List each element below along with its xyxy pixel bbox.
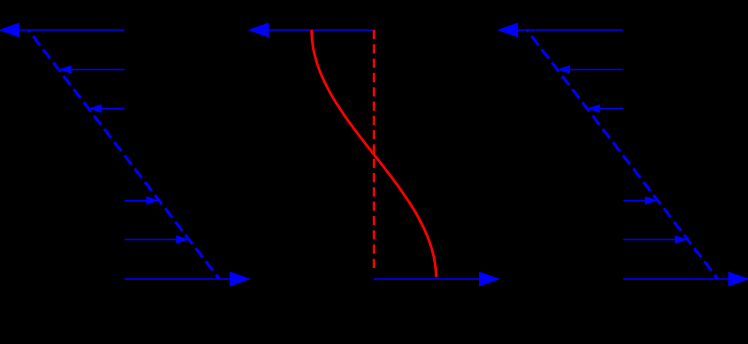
wall arrow top (left panel, pointing left) <box>0 23 125 38</box>
velocity arrow at y=108 (right panel, pointing left) <box>587 104 623 112</box>
velocity arrow at y=108 (left panel, pointing left) <box>89 104 125 112</box>
velocity arrow at y=70 (right panel, pointing left) <box>557 65 623 73</box>
velocity arrow at y=200 (left panel, pointing right) <box>125 196 160 204</box>
wall arrow bottom (right panel, pointing right) <box>623 272 748 287</box>
wall arrow bottom (middle panel, pointing right) <box>374 272 500 287</box>
velocity arrow at y=240 (left panel, pointing right) <box>125 235 189 243</box>
velocity arrow at y=70 (left panel, pointing left) <box>59 65 125 73</box>
dashed linear velocity profile line (left panel) <box>28 30 219 279</box>
velocity arrow at y=200 (right panel, pointing right) <box>623 196 658 204</box>
red S-shaped velocity profile curve (middle panel) <box>312 30 437 277</box>
velocity arrow at y=240 (right panel, pointing right) <box>623 235 687 243</box>
wall arrow bottom (left panel, pointing right) <box>125 272 251 287</box>
dashed linear velocity profile line (right panel) <box>527 30 718 279</box>
wall arrow top (middle panel, pointing left) <box>248 23 374 38</box>
red dashed vertical axis (middle panel) <box>373 30 375 272</box>
wall arrow top (right panel, pointing left) <box>497 23 623 38</box>
